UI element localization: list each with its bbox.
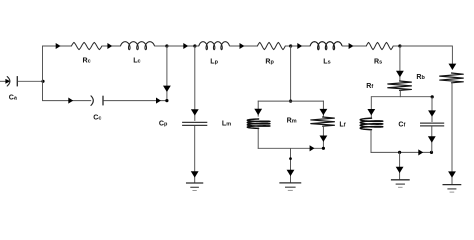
capacitor Cp — [182, 122, 207, 125]
wire middle network top bar — [258, 100, 324, 102]
resistor Rc — [71, 42, 102, 49]
current arrow above Lf — [367, 109, 375, 115]
wire Rf to right network top bar — [399, 90, 401, 97]
capacitor Cf — [420, 123, 444, 126]
svg-text:Lp: Lp — [210, 57, 218, 65]
wire middle network top-right corner down — [322, 101, 324, 117]
resistor Rs — [366, 42, 393, 49]
current arrow above Cp — [191, 109, 199, 115]
inductor Lf — [360, 118, 383, 130]
current arrow below Rm — [320, 136, 328, 142]
wire Lm to bottom bar — [257, 128, 259, 148]
current arrow above ground 4 — [448, 171, 456, 177]
wire rail right corner down to Rb — [451, 46, 453, 70]
svg-text:Rm: Rm — [287, 117, 297, 125]
svg-text:Cp: Cp — [159, 120, 168, 128]
current arrow after Lp — [240, 43, 245, 49]
inductor Lp — [199, 42, 230, 50]
svg-text:Ca: Ca — [9, 94, 18, 102]
node I junction dot (right top corner) — [431, 95, 434, 98]
svg-text:Rp: Rp — [265, 57, 274, 65]
wire middle network top-left corner down — [257, 101, 259, 117]
current arrow into Ca — [5, 79, 10, 84]
wire Rb down to ground — [451, 83, 453, 184]
wire input lead left — [0, 80, 6, 82]
current arrow before node F — [156, 98, 161, 104]
wire Lp to Rp — [229, 45, 257, 47]
capacitor Cc straight plate — [102, 96, 104, 106]
capacitor Ca straight plate — [16, 76, 18, 86]
junction marker below middle bottom bar — [289, 157, 292, 160]
current arrow above Rf — [396, 71, 404, 77]
current arrow after node D — [297, 43, 302, 49]
current arrow between node B and node C — [183, 43, 188, 49]
wire left vertical riser (node A up to top rail) — [42, 46, 44, 82]
wire node B drop to node F — [166, 46, 168, 101]
current arrow above Rm — [320, 109, 328, 115]
wire node B to node C — [167, 45, 195, 47]
current arrow below Cf — [428, 136, 436, 142]
wire Cc to node F — [104, 100, 167, 102]
svg-text:Rf: Rf — [366, 82, 373, 90]
wire top rail corner to Rc — [42, 45, 72, 47]
wire Rs to node E — [393, 45, 400, 47]
svg-text:Rs: Rs — [374, 57, 382, 65]
current arrow on node B drop — [163, 86, 171, 92]
ground 4 (far right) — [443, 185, 462, 193]
current arrow above ground 2 — [287, 170, 295, 176]
capacitor Cc curved plate — [91, 96, 93, 106]
current arrow above ground 1 — [191, 171, 199, 177]
wire left vertical drop (node A down to lower branch) — [42, 81, 44, 101]
node E junction dot — [398, 44, 401, 47]
svg-text:Ls: Ls — [323, 57, 330, 65]
inductor Lc — [121, 42, 155, 50]
wire middle network bottom bar — [258, 147, 324, 149]
current arrow on middle bottom bar — [310, 145, 315, 151]
resistor Rf — [388, 81, 412, 90]
resistor Rm — [311, 117, 335, 126]
wire Lf to bottom bar — [370, 130, 372, 153]
ground 3 (below right network) — [391, 180, 410, 188]
current arrow after Ls — [349, 43, 354, 49]
node D junction dot — [289, 44, 292, 47]
wire node J to ground — [399, 152, 401, 179]
inductor Ls — [310, 42, 342, 50]
wire Lc to node B — [154, 45, 167, 47]
svg-text:Lf: Lf — [339, 121, 345, 129]
svg-text:Rb: Rb — [416, 73, 425, 81]
current arrow on right bottom bar — [418, 149, 423, 155]
node B junction dot — [165, 44, 168, 47]
wire node C to Lp — [195, 45, 199, 47]
wire Rp to node D — [285, 45, 290, 47]
node H junction dot (middle bottom-right) — [322, 147, 325, 150]
wire Ls to Rs — [342, 45, 367, 47]
ground 2 (below Lm-Rm network) — [279, 183, 301, 191]
svg-text:Rc: Rc — [83, 56, 91, 64]
current arrow above Cf — [428, 110, 436, 116]
wire Cp to ground — [194, 126, 196, 183]
wire Cf branch from node I — [431, 97, 433, 122]
inductor Lm — [247, 119, 270, 128]
node G junction dot — [289, 100, 292, 103]
resistor Rp — [257, 42, 285, 49]
svg-text:Lc: Lc — [133, 56, 140, 64]
svg-text:Cc: Cc — [93, 113, 101, 121]
wire node D drop to middle network — [290, 46, 292, 101]
wire node C drop to Cp — [194, 46, 196, 121]
wire node E drop to Rf — [399, 46, 401, 81]
node A junction dot — [41, 80, 44, 83]
current arrow after Rc — [107, 43, 112, 49]
wire right top-left corner down to Lf — [370, 96, 372, 118]
node K junction dot (right bottom corner) — [430, 151, 433, 154]
capacitor Ca curved plate — [7, 77, 10, 86]
node C junction dot — [193, 44, 196, 47]
wire node D to Ls — [291, 45, 311, 47]
wire right network bottom bar — [371, 151, 432, 153]
wire middle bottom to ground — [290, 148, 292, 182]
current arrow above Lm — [254, 109, 262, 115]
ground 1 (below Cp) — [186, 183, 203, 191]
current arrow after input corner — [56, 43, 61, 49]
svg-text:Lm: Lm — [222, 120, 231, 128]
resistor Rb — [440, 73, 464, 83]
wire Rm to bottom corner — [322, 126, 324, 148]
node J junction dot (bottom of Rf-ground drop) — [398, 151, 401, 154]
current arrow above ground 3 — [396, 167, 404, 173]
wire lower branch from node A — [42, 100, 91, 102]
current arrow into Cc — [68, 98, 73, 104]
wire Cf to node K — [431, 126, 433, 152]
svg-text:Cf: Cf — [398, 121, 405, 129]
wire right network top bar — [371, 96, 432, 98]
current arrow above Rb — [449, 64, 457, 70]
wire node E to right corner — [400, 45, 453, 47]
wire Ca to node A — [18, 80, 43, 82]
node F junction dot — [165, 99, 168, 102]
wire Rc to Lc — [102, 45, 121, 47]
